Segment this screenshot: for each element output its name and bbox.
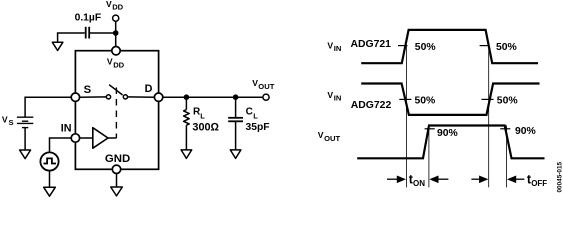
- wire battery to ground: [24, 128, 26, 150]
- svg-text:OUT: OUT: [258, 82, 274, 91]
- svg-text:GND: GND: [105, 153, 130, 165]
- svg-text:OUT: OUT: [324, 134, 340, 143]
- svg-text:S: S: [84, 84, 92, 96]
- svg-text:V: V: [106, 0, 112, 9]
- arrow tON left: [387, 178, 399, 180]
- svg-text:ADG722: ADG722: [351, 100, 392, 111]
- resistor RL wire bottom: [185, 125, 187, 150]
- svg-text:OFF: OFF: [531, 179, 547, 188]
- switch contact right: [123, 95, 127, 99]
- svg-text:V: V: [318, 130, 324, 140]
- capacitor CL plates: [228, 117, 243, 119]
- wire S to VS: [25, 97, 71, 116]
- pin GND: [112, 165, 120, 173]
- svg-text:00045-015: 00045-015: [557, 161, 563, 192]
- ground (GND pin): [111, 187, 123, 196]
- svg-text:35pF: 35pF: [246, 122, 270, 133]
- wire contact right to D: [128, 96, 155, 98]
- capacitor C1 plates: [85, 27, 87, 39]
- svg-text:V: V: [327, 90, 333, 100]
- capacitor CL wire top: [235, 97, 237, 117]
- svg-text:D: D: [145, 83, 153, 95]
- ground (cap): [52, 42, 63, 50]
- wire buffer tip to dashed line: [108, 137, 116, 139]
- svg-text:ON: ON: [413, 179, 425, 188]
- svg-text:DD: DD: [113, 61, 124, 70]
- tick 90% (rise): [425, 128, 435, 130]
- pin IN: [71, 134, 79, 142]
- svg-text:V: V: [107, 57, 113, 67]
- wire S to switch contact: [80, 96, 107, 98]
- tick 90% (fall): [500, 128, 510, 130]
- svg-text:IN: IN: [334, 44, 342, 53]
- resistor RL: [184, 110, 190, 126]
- wire IN to buffer: [80, 137, 93, 139]
- svg-text:90%: 90%: [437, 128, 458, 139]
- terminal VOUT: [263, 94, 269, 100]
- svg-text:L: L: [200, 111, 205, 120]
- svg-text:ADG721: ADG721: [351, 39, 392, 50]
- measure line VOUT rise 90%: [428, 125, 430, 187]
- arrow tOFF right: [507, 176, 516, 184]
- svg-text:S: S: [9, 118, 14, 127]
- measure line t=0 rise: [405, 46, 407, 188]
- tick 50% (721 rise): [398, 45, 408, 47]
- wire D to VOUT: [163, 96, 263, 98]
- svg-text:90%: 90%: [515, 126, 536, 137]
- svg-text:50%: 50%: [415, 42, 436, 53]
- ground (VS): [20, 150, 31, 159]
- tick 50% (721 fall): [480, 45, 490, 47]
- ground (CL): [230, 150, 241, 159]
- svg-text:V: V: [252, 78, 258, 88]
- pin VDD (box): [112, 47, 120, 55]
- driver buffer: [93, 128, 108, 149]
- svg-text:DD: DD: [112, 2, 123, 11]
- resistor RL wire top: [185, 97, 187, 109]
- switch contact left: [106, 95, 110, 99]
- waveform VOUT: [357, 126, 544, 159]
- waveform VIN ADG722: [361, 84, 539, 115]
- ground (pulse source): [44, 187, 56, 196]
- svg-text:L: L: [253, 111, 258, 120]
- junction dot: [113, 30, 119, 36]
- measure line VOUT fall 90%: [506, 125, 508, 187]
- svg-text:IN: IN: [334, 94, 342, 103]
- wire pulse source to ground: [49, 171, 51, 188]
- svg-text:V: V: [327, 41, 333, 51]
- capacitor CL wire bottom: [235, 121, 237, 150]
- svg-text:C: C: [246, 106, 253, 117]
- svg-text:50%: 50%: [415, 95, 436, 106]
- wire GND pin to ground: [116, 174, 118, 188]
- tick 50% (722 fall): [399, 98, 411, 100]
- wire cap right to junction: [90, 32, 116, 34]
- svg-text:300Ω: 300Ω: [192, 121, 219, 133]
- svg-text:50%: 50%: [497, 95, 518, 106]
- wire IN to pulse source: [50, 138, 72, 152]
- pin D: [154, 93, 162, 101]
- svg-text:0.1µF: 0.1µF: [75, 13, 102, 24]
- svg-text:IN: IN: [61, 123, 72, 135]
- switch arm: [109, 85, 123, 95]
- arrow tOFF left: [471, 178, 481, 180]
- battery VS: [17, 116, 33, 118]
- tick 50% (722 rise): [482, 98, 494, 100]
- switch box outline: [75, 51, 158, 170]
- dashed control line: [115, 88, 117, 139]
- wire junction to VDD pin: [115, 33, 117, 47]
- terminal VDD: [113, 15, 119, 21]
- pulse source: [40, 152, 58, 170]
- pin S: [71, 93, 79, 101]
- node RL junction: [184, 94, 190, 100]
- wire cap left to ground stub: [58, 33, 85, 42]
- ground (RL): [181, 150, 192, 159]
- arrow tON right: [429, 176, 438, 184]
- node CL junction: [233, 94, 239, 100]
- wire VDD terminal to junction: [115, 21, 117, 33]
- waveform VIN ADG721: [361, 30, 538, 63]
- svg-text:V: V: [2, 114, 8, 124]
- measure line t=0 fall: [488, 46, 490, 188]
- svg-text:50%: 50%: [496, 42, 517, 53]
